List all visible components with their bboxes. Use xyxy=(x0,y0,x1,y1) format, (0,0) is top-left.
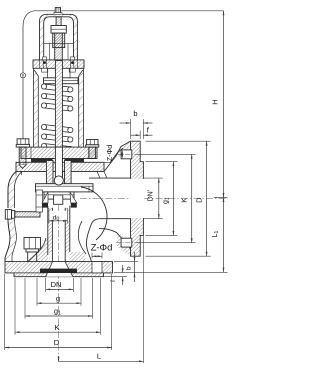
outlet bore opening white xyxy=(130,179,144,218)
stud right shank xyxy=(89,147,96,158)
seat nozzle bore left xyxy=(51,208,53,262)
svg-text:H: H xyxy=(210,99,219,104)
outlet neck bottom xyxy=(99,229,131,249)
DN bottom ext lines xyxy=(45,278,47,292)
L bottom dimension xyxy=(59,360,144,362)
D bottom dimension xyxy=(5,347,112,349)
svg-text:DN: DN xyxy=(51,280,62,289)
bonnet bottom flange xyxy=(21,147,97,158)
ext line base xyxy=(114,271,228,273)
ext line hole top xyxy=(137,153,196,155)
K bottom ext lines xyxy=(14,278,16,335)
outlet neck top xyxy=(104,141,131,171)
outlet flange bolt hole top xyxy=(121,150,132,159)
svg-text:g: g xyxy=(56,294,60,303)
disc center xyxy=(54,195,63,204)
DN bottom dimension xyxy=(46,288,74,290)
svg-text:D: D xyxy=(54,338,60,347)
svg-text:Z-Φd: Z-Φd xyxy=(91,242,113,253)
outlet flange bolt hole bottom xyxy=(121,238,132,247)
bottom stud nut xyxy=(24,238,41,249)
f top ext line xyxy=(139,131,141,140)
nozzle wall hatch xyxy=(48,208,53,253)
balloon leader down to stud xyxy=(22,78,24,139)
seal ring left xyxy=(42,203,48,208)
d0 dimension mask xyxy=(49,211,69,220)
test screw shank xyxy=(15,212,40,217)
seal ring right xyxy=(71,203,77,208)
guide plate xyxy=(36,184,94,192)
Z-Phi-d bottom dimension xyxy=(91,253,93,259)
cap flange under-nut right xyxy=(69,68,75,72)
stud right nut xyxy=(87,140,98,145)
outlet bore bottom xyxy=(91,219,131,225)
cap flange stud left xyxy=(42,60,44,68)
cap flange stud right xyxy=(70,60,72,68)
stud left nut xyxy=(17,139,29,145)
body inner wall below boss xyxy=(12,219,17,262)
svg-text:b: b xyxy=(133,109,137,118)
lock nut xyxy=(51,26,66,34)
body wall to bore corner xyxy=(97,172,107,179)
nozzle base hatch right xyxy=(70,252,86,262)
svg-text:g1: g1 xyxy=(162,197,170,204)
bottom flange hole right xyxy=(92,262,102,273)
H and L1 dimension line xyxy=(223,11,225,272)
vertical centerline xyxy=(58,16,60,362)
body neck hatch area xyxy=(28,238,48,262)
part balloon circle xyxy=(21,73,26,78)
svg-text:L1: L1 xyxy=(212,230,220,237)
bonnet wall left xyxy=(34,68,39,147)
bore flare right xyxy=(65,262,73,277)
body left inner wall xyxy=(15,172,23,209)
body flange left skirt xyxy=(16,172,22,176)
seat nozzle bore right xyxy=(64,208,66,262)
ext line flange bottom xyxy=(146,255,211,257)
f bottom dimension xyxy=(122,265,124,273)
adjusting screw spindle in cap xyxy=(55,26,63,61)
g1 right dimension xyxy=(172,162,174,236)
body lower right inner wall xyxy=(78,221,86,254)
svg-text:b: b xyxy=(125,266,132,270)
cap inner shell xyxy=(44,17,74,61)
svg-text:g1: g1 xyxy=(54,307,61,317)
gasket right xyxy=(65,159,85,163)
ext line hole bottom xyxy=(137,242,196,244)
top nut xyxy=(55,8,60,15)
leader to H line xyxy=(61,10,224,12)
seat nozzle outer right xyxy=(69,206,71,252)
bolt hole top centerline xyxy=(116,153,137,155)
cap flange under-nut left xyxy=(42,68,48,72)
cap flange xyxy=(33,60,84,68)
outlet centerline xyxy=(80,198,228,200)
ext line g1 top xyxy=(146,161,178,163)
b top dimension xyxy=(120,122,131,124)
flange bore opening xyxy=(46,262,73,277)
f top dimension xyxy=(131,134,140,136)
gasket left xyxy=(31,159,53,163)
body left wall hatch upper xyxy=(8,172,22,209)
guide bushing left xyxy=(46,161,53,184)
svg-text:f: f xyxy=(110,280,117,282)
hole diameter arrows top xyxy=(121,150,123,155)
cap flange bolt right xyxy=(71,61,74,64)
b bottom-right dimension xyxy=(134,252,136,282)
bottom flange slab xyxy=(5,262,113,277)
spindle through joint xyxy=(55,147,62,177)
bonnet neck lines xyxy=(47,68,49,77)
g1 bottom ext lines xyxy=(24,278,26,319)
spindle tip ball xyxy=(54,176,63,185)
b top ext lines xyxy=(129,119,131,139)
g1 bottom dimension xyxy=(25,315,93,317)
body wall below boss xyxy=(5,219,10,262)
svg-text:f: f xyxy=(147,126,150,135)
leader line left segment xyxy=(34,10,55,12)
outlet centerline tick xyxy=(214,197,228,199)
test screw collar xyxy=(12,210,15,218)
adjusting screw stem upper xyxy=(56,17,61,26)
D bottom ext lines xyxy=(4,274,6,350)
cap flange bolt head right xyxy=(70,57,74,60)
disc wing right xyxy=(70,192,77,203)
outlet flange plate xyxy=(131,141,144,256)
ext line flange top xyxy=(146,140,211,142)
bolt hole bottom centerline xyxy=(116,242,137,244)
svg-text:d0: d0 xyxy=(53,215,60,223)
top nut washer xyxy=(54,13,62,15)
spring coils xyxy=(41,84,73,152)
body lower right outer wall xyxy=(86,225,91,262)
outlet bore top xyxy=(89,177,131,179)
outlet neck bottom hatch xyxy=(117,233,131,257)
cap wall hatch left xyxy=(40,14,78,60)
cap flange bolt head left xyxy=(43,57,47,60)
DN' dimension xyxy=(158,178,160,219)
svg-text:D: D xyxy=(195,197,204,203)
screw bushing xyxy=(53,33,65,48)
D right dimension xyxy=(206,141,208,256)
cap outer shell xyxy=(40,14,78,60)
body left wall hatch lower xyxy=(5,219,17,262)
stud left shank xyxy=(19,147,26,165)
body top flange xyxy=(16,162,104,171)
lever fork plate xyxy=(36,190,43,212)
outlet neck top inner xyxy=(104,148,123,162)
K bottom dimension xyxy=(15,331,101,333)
leader curve to circle xyxy=(23,11,34,73)
bonnet wall right xyxy=(79,68,84,147)
disc holder xyxy=(44,192,74,199)
ext line bore top xyxy=(143,177,162,179)
valve spindle xyxy=(55,61,62,176)
svg-text:DN': DN' xyxy=(147,190,154,201)
ext line g1 bottom xyxy=(146,234,178,236)
spring top plate xyxy=(44,78,79,84)
svg-text:K: K xyxy=(54,323,59,332)
seat nozzle outer left xyxy=(47,206,49,255)
outlet face ext line down xyxy=(142,236,144,363)
body neck into flange left xyxy=(28,238,46,262)
svg-text:L: L xyxy=(97,352,101,361)
cap flange bolt left xyxy=(43,61,46,64)
d0 dimension xyxy=(48,208,50,224)
body cavity arc xyxy=(81,187,107,240)
bottom stud shank xyxy=(28,252,37,262)
g bottom dimension xyxy=(37,302,81,304)
test screw head xyxy=(5,210,11,220)
body left outer wall xyxy=(8,172,16,209)
guide bushing right xyxy=(65,161,72,184)
bore flare left xyxy=(46,262,53,277)
ext line bore bottom xyxy=(143,218,162,220)
svg-text:Z-Φd: Z-Φd xyxy=(105,145,114,162)
disc wing left xyxy=(42,192,48,203)
svg-text:K: K xyxy=(179,198,188,203)
bottom stud pad xyxy=(26,249,39,252)
K right dimension xyxy=(191,154,193,242)
outlet neck top hatch xyxy=(116,141,131,160)
seat ring dark band xyxy=(40,269,77,273)
g bottom ext lines xyxy=(36,278,38,306)
cap interior shelf xyxy=(44,42,74,44)
